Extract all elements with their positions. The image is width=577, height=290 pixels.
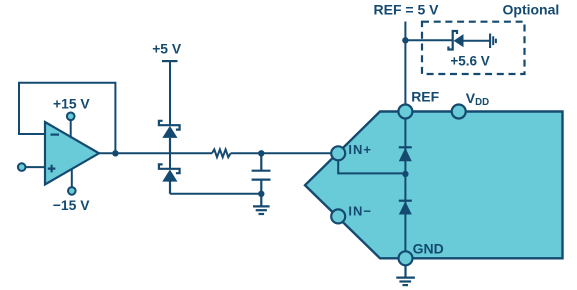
diode D3 bbox=[399, 147, 412, 161]
schottky diode D2 bbox=[159, 164, 180, 193]
pin GND bbox=[399, 251, 413, 265]
sideways ground symbol bbox=[490, 34, 496, 49]
svg-text:REF: REF bbox=[411, 88, 439, 104]
optional dashed box bbox=[422, 22, 525, 74]
pin VDD bbox=[452, 105, 466, 119]
wire input to op-amp bbox=[26, 166, 46, 168]
svg-text:IN+: IN+ bbox=[348, 142, 372, 157]
schottky diode D1 bbox=[159, 121, 180, 154]
op-amp plus sign bbox=[48, 165, 56, 173]
capacitor C1 bbox=[252, 153, 271, 194]
svg-text:+15 V: +15 V bbox=[53, 95, 90, 111]
svg-text:+5 V: +5 V bbox=[152, 41, 182, 57]
wire feedback loop bbox=[19, 83, 115, 154]
node filter junction bbox=[258, 150, 264, 156]
svg-text:+5.6 V: +5.6 V bbox=[450, 53, 489, 68]
pin IN+ bbox=[331, 146, 345, 160]
svg-text:REF = 5 V: REF = 5 V bbox=[374, 2, 440, 18]
wire zener to ground bbox=[464, 40, 491, 42]
ground symbol at GND bbox=[396, 265, 415, 285]
node REF junction bbox=[402, 37, 408, 43]
op-amp minus sign bbox=[51, 134, 60, 136]
svg-text:IN−: IN− bbox=[348, 204, 372, 219]
+5 V power bar bbox=[162, 60, 178, 62]
+15 V supply terminal bbox=[67, 113, 75, 121]
wire signal through clamp bbox=[169, 153, 171, 169]
pin IN- bbox=[331, 209, 345, 223]
svg-text:VDD: VDD bbox=[466, 90, 489, 108]
pin REF bbox=[398, 105, 412, 119]
svg-text:−15 V: −15 V bbox=[53, 197, 90, 213]
wire +5V to diode D1 bbox=[169, 61, 171, 125]
wire IN+ to clamp node bbox=[338, 160, 403, 173]
svg-text:GND: GND bbox=[413, 240, 444, 256]
ADC block bbox=[305, 112, 563, 259]
node ground junction bbox=[258, 191, 264, 197]
node output junction bbox=[112, 150, 118, 156]
wire REF to zener bbox=[405, 39, 452, 41]
wire REF rail bbox=[404, 22, 406, 105]
node clamp junction bbox=[402, 171, 408, 177]
wire D2 anode to ground node bbox=[170, 193, 261, 195]
op-amp U1 bbox=[45, 122, 99, 185]
resistor R1 bbox=[212, 149, 231, 157]
wire resistor to IN+ bbox=[231, 152, 332, 154]
zener diode D5 bbox=[448, 31, 463, 50]
ground symbol bbox=[253, 194, 270, 214]
wire REF to GND internal rail bbox=[404, 119, 406, 252]
-15 V supply terminal bbox=[68, 187, 76, 195]
diode D4 bbox=[399, 201, 412, 215]
input terminal bbox=[18, 163, 26, 171]
svg-text:Optional: Optional bbox=[503, 2, 560, 18]
wire op-amp output bbox=[99, 152, 212, 154]
